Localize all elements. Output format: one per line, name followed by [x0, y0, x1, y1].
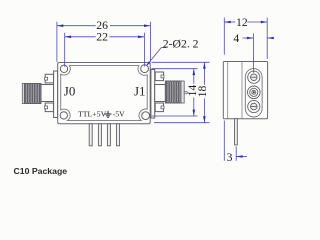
svg-text:12: 12 [236, 16, 248, 29]
svg-text:22: 22 [96, 30, 108, 43]
svg-text:2-Ø2. 2: 2-Ø2. 2 [163, 38, 199, 51]
svg-text:-5V: -5V [113, 110, 125, 119]
svg-text:18: 18 [196, 86, 209, 98]
svg-text:3: 3 [227, 151, 233, 164]
svg-text:J1: J1 [134, 84, 146, 99]
svg-text:4: 4 [233, 32, 239, 45]
svg-text:C10 Package: C10 Package [14, 166, 68, 176]
svg-text:J0: J0 [64, 84, 76, 99]
svg-text:TTL+5V: TTL+5V [78, 110, 107, 119]
